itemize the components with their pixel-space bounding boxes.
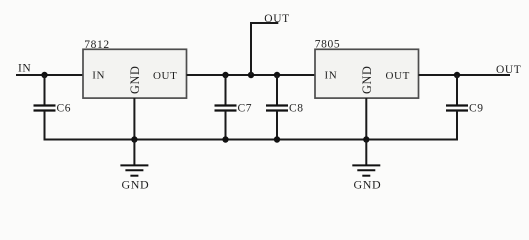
svg-text:IN: IN bbox=[92, 70, 105, 82]
wire C9 upper bbox=[456, 75, 458, 105]
capacitor C7 bbox=[215, 103, 253, 115]
svg-text:OUT: OUT bbox=[496, 64, 521, 76]
svg-text:C9: C9 bbox=[469, 103, 484, 115]
junction C7 top bbox=[222, 72, 228, 78]
wire OUT stub vertical bbox=[250, 23, 252, 75]
ground GND1 bbox=[120, 140, 149, 192]
wire OUT stub horizontal bbox=[250, 22, 278, 24]
regulator U1 7812 bbox=[83, 39, 187, 98]
wire U1 GND pin down bbox=[133, 98, 135, 140]
svg-text:IN: IN bbox=[18, 63, 31, 75]
wire C8 upper bbox=[276, 75, 278, 105]
junction GND2 bbox=[363, 136, 369, 142]
svg-text:OUT: OUT bbox=[386, 70, 410, 82]
wire C6 lower bbox=[44, 111, 46, 141]
junction at C6 tap bbox=[41, 72, 47, 78]
junction C8 bottom bbox=[274, 136, 280, 142]
wire ground bus bbox=[44, 139, 459, 141]
svg-text:IN: IN bbox=[325, 70, 338, 82]
wire C6 upper bbox=[44, 75, 46, 105]
svg-text:C7: C7 bbox=[238, 103, 253, 115]
svg-text:7805: 7805 bbox=[315, 39, 340, 51]
ground GND2 bbox=[352, 140, 381, 192]
capacitor C9 bbox=[446, 103, 484, 115]
svg-text:GND: GND bbox=[122, 178, 150, 192]
capacitor C8 bbox=[266, 103, 304, 115]
wire U2 GND pin down bbox=[365, 98, 367, 140]
svg-text:GND: GND bbox=[128, 66, 142, 94]
svg-text:C6: C6 bbox=[57, 103, 72, 115]
svg-text:C8: C8 bbox=[289, 103, 304, 115]
junction OUT stub bbox=[248, 72, 254, 78]
junction GND1 bbox=[131, 136, 137, 142]
svg-text:GND: GND bbox=[360, 66, 374, 94]
wire C7 lower bbox=[225, 111, 227, 140]
svg-text:GND: GND bbox=[354, 178, 382, 192]
svg-text:OUT: OUT bbox=[153, 70, 177, 82]
regulator U2 7805 bbox=[315, 39, 419, 99]
capacitor C6 bbox=[34, 103, 72, 115]
wire U2 OUT to OUT bbox=[419, 74, 511, 76]
wire U1 OUT to U2 IN bbox=[187, 74, 316, 76]
wire C7 upper bbox=[225, 75, 227, 105]
junction C9 top bbox=[454, 72, 460, 78]
junction C7 bottom bbox=[222, 136, 228, 142]
junction C8 top bbox=[274, 72, 280, 78]
svg-text:7812: 7812 bbox=[84, 39, 109, 51]
svg-text:OUT: OUT bbox=[264, 13, 289, 25]
wire C9 lower bbox=[456, 111, 458, 141]
wire C8 lower bbox=[276, 111, 278, 140]
wire IN to U1 bbox=[16, 74, 83, 76]
